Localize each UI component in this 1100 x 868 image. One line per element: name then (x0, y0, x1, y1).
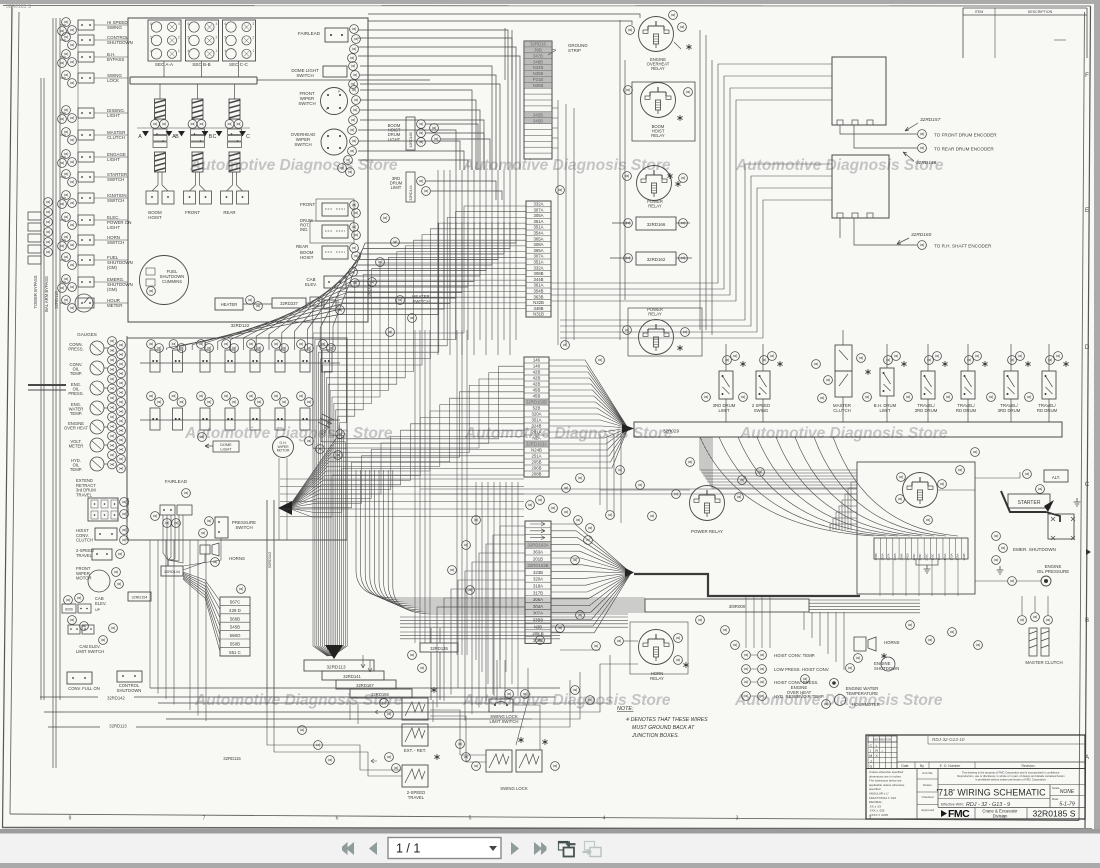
2-speed travel switch (76, 548, 124, 560)
svg-text:FAIRLEAD: FAIRLEAD (298, 31, 321, 36)
svg-text:Automotive Diagnosis Store: Automotive Diagnosis Store (464, 425, 673, 442)
toolbar page combobox (388, 838, 501, 859)
wire curve bundle to engine band (356, 470, 645, 614)
svg-text:CLUTCH: CLUTCH (833, 408, 850, 413)
note text (617, 706, 708, 739)
svg-text:MOTOR: MOTOR (277, 449, 290, 453)
svg-text:SWING LOCK: SWING LOCK (500, 786, 528, 791)
buzzer (318, 414, 344, 438)
wire duct 32RD112 (267, 500, 274, 700)
pressure switch (205, 517, 257, 538)
wire tower bypass vertical bus (41, 18, 60, 768)
svg-text:SHUTDOWN: SHUTDOWN (117, 688, 142, 693)
svg-text:308A: 308A (533, 242, 543, 247)
svg-text:Revision: Revision (1021, 764, 1034, 768)
svg-text:550B: 550B (230, 642, 240, 647)
svg-text:6: 6 (336, 816, 339, 822)
svg-text:354B: 354B (533, 289, 543, 294)
wire bottom connections (48, 668, 540, 778)
scattered wire numbers strip C (526, 474, 595, 533)
svg-text:208B: 208B (531, 472, 541, 477)
svg-text:TEMP.: TEMP. (70, 411, 82, 416)
svg-text:Approved: Approved (921, 808, 934, 812)
horns lower (199, 529, 245, 567)
svg-text:SWITCH: SWITCH (107, 198, 124, 203)
toolbar first page button (342, 842, 354, 855)
svg-text:FMC: FMC (948, 808, 970, 820)
wire left risers to bottom bus (150, 540, 206, 721)
svg-text:205B: 205B (531, 460, 541, 465)
svg-text:Division: Division (993, 814, 1008, 819)
wire thick feeder 3/8R000 (634, 574, 860, 612)
title signature cells (917, 769, 938, 813)
svg-text:LIMIT SWITCH: LIMIT SWITCH (489, 719, 518, 724)
svg-text:OIL PRESSURE: OIL PRESSURE (1037, 569, 1069, 574)
svg-text:1: 1 (253, 49, 255, 53)
svg-text:317B: 317B (533, 590, 543, 595)
boom hoist drum light cluster (388, 117, 490, 170)
svg-text:STRIP: STRIP (568, 48, 581, 53)
wire encoder callout rear drum (854, 125, 994, 166)
svg-text:351A: 351A (531, 418, 541, 423)
svg-text:SWITCH: SWITCH (107, 177, 124, 182)
svg-text:LIGHT: LIGHT (107, 225, 120, 230)
terminal strip right horizontal (874, 538, 968, 573)
svg-text:363A: 363A (533, 550, 543, 555)
svg-text:33BB: 33BB (533, 618, 544, 623)
svg-text:202C: 202C (924, 553, 928, 561)
svg-text:206B: 206B (531, 466, 541, 471)
svg-text:RD DRUM: RD DRUM (956, 408, 977, 413)
svg-text:Reproduction, use or disclosur: Reproduction, use or disclosure, in whol… (957, 774, 1065, 778)
svg-text:307A: 307A (533, 207, 543, 212)
gauge sender column (64, 336, 130, 522)
title fmc logo (941, 808, 1027, 821)
wire bundle strip A to dark trunk (313, 206, 526, 656)
wire encoder feeds (551, 64, 832, 338)
watermark row 2 (184, 425, 948, 442)
watermark row 3 (194, 692, 943, 709)
svg-text:TOWER BYPASS: TOWER BYPASS (33, 275, 38, 308)
svg-text:LOCK: LOCK (107, 78, 119, 83)
svg-text:201A: 201A (531, 430, 541, 435)
svg-text:32RD237: 32RD237 (280, 301, 298, 306)
svg-text:32RD144: 32RD144 (164, 570, 180, 574)
svg-text:MUST GROUND BACK AT: MUST GROUND BACK AT (632, 725, 695, 731)
front drum rot ind relays (296, 199, 360, 260)
svg-text:TO FRONT DRUM ENCODER: TO FRONT DRUM ENCODER (934, 133, 997, 138)
3rd drum limit cluster (390, 172, 502, 202)
wire mid horizontals (280, 434, 857, 523)
junction box 32RD154 (128, 592, 151, 601)
conv full on switch (67, 672, 100, 691)
title distribution table (868, 736, 897, 769)
svg-text:393A: 393A (880, 553, 884, 560)
svg-text:PRESS.: PRESS. (68, 391, 83, 396)
cab elev switches (62, 594, 107, 631)
svg-text:C: C (213, 134, 217, 140)
svg-text:CLUTCH: CLUTCH (107, 135, 125, 140)
svg-text:TRAVEL: TRAVEL (76, 492, 93, 497)
terminal strip B (524, 357, 549, 477)
svg-text:32R029: 32R029 (663, 429, 680, 434)
alternator box (1023, 470, 1068, 494)
svg-text:2: 2 (216, 35, 218, 39)
svg-text:6: 6 (150, 22, 152, 26)
wire engine band lines (400, 596, 920, 670)
svg-text:341B: 341B (893, 553, 897, 560)
junction box 32RD156 (350, 689, 412, 698)
front wiper switch (298, 86, 360, 125)
relay horn (560, 622, 689, 681)
wire lower-right links (524, 655, 638, 727)
svg-text:Drawn: Drawn (923, 783, 932, 787)
wire feeds starter cluster (700, 437, 1020, 596)
svg-text:SWING: SWING (107, 25, 122, 30)
svg-text:3RD DRUM: 3RD DRUM (915, 408, 938, 413)
svg-text:3: 3 (178, 22, 180, 26)
svg-text:RDJ - 32 - G13 - 9: RDJ - 32 - G13 - 9 (966, 802, 1010, 808)
svg-text:551 C: 551 C (229, 650, 241, 655)
svg-text:(GM): (GM) (107, 287, 118, 292)
svg-text:L: L (876, 744, 878, 748)
title eo header row (866, 736, 1085, 769)
svg-text:CUMMINS: CUMMINS (162, 279, 182, 284)
junction box 32RD167 (336, 680, 396, 689)
overhead wiper switch (291, 126, 359, 177)
master clutch solenoids bottom right (1018, 596, 1063, 665)
svg-text:REAR: REAR (296, 244, 308, 249)
junction box 32RD144 lower (161, 566, 183, 576)
svg-text:307A: 307A (533, 611, 543, 616)
encoder box upper (832, 57, 886, 125)
junction arrow dark trunk (325, 645, 343, 659)
svg-text:32RD160: 32RD160 (911, 232, 932, 238)
svg-text:CONV. FULL ON: CONV. FULL ON (68, 686, 100, 691)
wire staircase strip B left fan (288, 366, 524, 517)
svg-text:32R0185 S: 32R0185 S (6, 4, 32, 10)
junction arrow power bus (622, 424, 634, 433)
svg-text:L: L (326, 107, 328, 111)
svg-text:45B: 45B (533, 394, 541, 399)
junction box 32RD237 (272, 298, 306, 308)
svg-text:N3B: N3B (534, 624, 542, 629)
svg-text:52B: 52B (533, 406, 541, 411)
wire drops below 32RD boxes (350, 655, 372, 724)
svg-text:324B: 324B (531, 424, 541, 429)
encoder box lower (832, 155, 889, 218)
svg-text:HOIST CONV. PRESS.: HOIST CONV. PRESS. (774, 680, 818, 685)
svg-text:SWITCH: SWITCH (294, 142, 311, 147)
wires fairlead to 32RD144 (163, 515, 221, 570)
fairlead switch top (298, 25, 361, 63)
svg-text:337A: 337A (887, 553, 891, 560)
connector SEC A-A (148, 20, 181, 77)
svg-text:406B: 406B (874, 553, 878, 560)
engine shutdown lamp (846, 657, 900, 672)
svg-text:Scale: Scale (1052, 786, 1060, 790)
svg-text:Effective W/N:: Effective W/N: (941, 803, 964, 807)
wire relay column verticals (620, 20, 712, 340)
solenoid travel lower (371, 753, 440, 800)
wire staircase into gauges block (167, 222, 516, 350)
terminal strip A (526, 201, 551, 317)
svg-text:42B: 42B (533, 382, 541, 387)
svg-text:363B: 363B (533, 294, 543, 299)
heater box (215, 296, 262, 311)
svg-text:32RD122: 32RD122 (231, 323, 250, 328)
svg-text:TEMP.: TEMP. (70, 371, 82, 376)
svg-text:Automotive Diagnosis Store: Automotive Diagnosis Store (184, 425, 393, 442)
svg-text:POWER RELAY: POWER RELAY (691, 529, 723, 534)
svg-text:348B: 348B (533, 306, 543, 311)
title property note (938, 771, 1085, 785)
junction box 32RD166 (612, 217, 690, 230)
svg-text:LIMIT: LIMIT (391, 185, 402, 190)
svg-text:RELAY: RELAY (650, 676, 664, 681)
starter block outline (857, 462, 975, 594)
svg-text:REAR: REAR (223, 210, 235, 215)
svg-text:32RD113: 32RD113 (326, 665, 346, 670)
horns cluster right (854, 637, 900, 662)
svg-text:42B: 42B (533, 376, 541, 381)
svg-text:EXT. - RET.: EXT. - RET. (404, 748, 426, 753)
svg-text:NOTE:: NOTE: (617, 706, 634, 712)
svg-text:32RD118: 32RD118 (54, 291, 59, 309)
svg-text:OVER HEAT: OVER HEAT (64, 426, 88, 431)
svg-text:FAIRLEAD: FAIRLEAD (165, 479, 188, 484)
svg-text:SWING: SWING (754, 408, 769, 413)
fairlead lower cluster (151, 479, 192, 527)
gauge row 1 (140, 340, 340, 372)
svg-text:DESCRIPTION: DESCRIPTION (1028, 10, 1053, 14)
junction box 32RD122 outline (128, 18, 372, 328)
svg-text:LIMIT: LIMIT (719, 408, 730, 413)
svg-text:LIGHT: LIGHT (220, 447, 232, 451)
wire top bus bar (130, 77, 430, 84)
svg-text:2: 2 (253, 35, 255, 39)
terminal strip C (525, 521, 551, 643)
toolbar next page button (511, 842, 519, 855)
title sheet number (1032, 809, 1075, 819)
svg-text:148: 148 (533, 364, 541, 369)
junction box 32RD162 (610, 252, 692, 265)
svg-text:354A: 354A (533, 231, 543, 236)
svg-text:HEATER: HEATER (221, 302, 238, 307)
connector tower bypass strip (28, 198, 66, 390)
svg-text:1: 1 (178, 49, 180, 53)
svg-text:HOURMETER: HOURMETER (852, 702, 880, 707)
switch TRAVEL 3RD DRUM (904, 344, 948, 422)
svg-text:408C: 408C (918, 553, 922, 561)
svg-text:8099: 8099 (65, 608, 73, 612)
svg-text:J: J (870, 759, 872, 763)
relay power 1 (623, 166, 688, 209)
svg-text:.XXXX ± .0005: .XXXX ± .0005 (869, 813, 888, 817)
svg-text:N31B: N31B (533, 312, 544, 317)
svg-text:32RD142: 32RD142 (107, 696, 125, 701)
dome light lamp (198, 433, 239, 452)
svg-text:LIGHT: LIGHT (388, 137, 401, 142)
power relay 2 junction box outline (628, 308, 702, 356)
svg-text:32RD165: 32RD165 (409, 132, 413, 147)
ground strip connector (524, 41, 588, 159)
wire verticals beside ground strip (552, 100, 574, 345)
svg-text:SWITCH: SWITCH (296, 73, 313, 78)
svg-text:HYD. RESERVOIR TEMP.: HYD. RESERVOIR TEMP. (774, 694, 824, 699)
extend retract 3rd drum travel switch (76, 478, 128, 521)
svg-text:JUNCTION BOXES.: JUNCTION BOXES. (631, 733, 679, 739)
title drawing name (936, 788, 1085, 809)
revision table top right (963, 8, 1087, 58)
switch TRAVEL RD DRUM (944, 344, 988, 422)
svg-text:SWITCH: SWITCH (235, 525, 252, 530)
svg-text:NONE: NONE (1060, 789, 1075, 795)
svg-text:318A: 318A (533, 584, 543, 589)
svg-text:3: 3 (253, 22, 255, 26)
cab elev limit switch (68, 624, 117, 654)
svg-text:103C: 103C (931, 553, 935, 561)
svg-text:✳ DENOTES THAT THESE WIRES: ✳ DENOTES THAT THESE WIRES (625, 717, 708, 723)
svg-text:32RD156: 32RD156 (371, 692, 389, 697)
svg-text:5: 5 (188, 35, 190, 39)
svg-text:32R0185 S: 32R0185 S (1032, 809, 1075, 819)
border zone numbers (69, 816, 1006, 822)
title tolerance cell (869, 769, 917, 820)
svg-text:E: E (1085, 208, 1089, 214)
svg-text:Automotive Diagnosis Store: Automotive Diagnosis Store (189, 157, 398, 174)
svg-text:305A: 305A (533, 213, 543, 218)
svg-text:is prohibited without written: is prohibited without written permission… (975, 778, 1047, 782)
battery rectifier box (1048, 498, 1080, 540)
svg-text:D: D (1085, 345, 1090, 351)
svg-text:365A: 365A (533, 248, 543, 253)
svg-text:8: 8 (69, 816, 72, 822)
svg-text:CLUTCH: CLUTCH (76, 538, 93, 543)
hourmeter (822, 695, 880, 709)
junction box 32RD113 (304, 660, 374, 671)
svg-text:UP: UP (95, 608, 101, 612)
relay power 2 (623, 307, 690, 355)
drum controller BOOM HOIST (146, 84, 174, 220)
svg-text:344B: 344B (533, 277, 543, 282)
svg-text:SHUTDOWN: SHUTDOWN (107, 40, 133, 45)
toolbar (0, 833, 1100, 863)
svg-text:32RD113: 32RD113 (109, 724, 127, 729)
svg-text:Checked: Checked (922, 795, 934, 799)
svg-text:ELEV.: ELEV. (305, 282, 317, 287)
svg-text:32RD112: 32RD112 (267, 551, 272, 568)
svg-text:567C: 567C (230, 600, 241, 605)
svg-text:204B: 204B (962, 553, 966, 560)
svg-text:LIMIT: LIMIT (880, 408, 891, 413)
junction arrow fairlead fan (278, 501, 292, 515)
front wiper motor (76, 566, 123, 592)
svg-text:42B: 42B (533, 370, 541, 375)
wire top feed to relay column (368, 14, 640, 80)
svg-text:428 D: 428 D (229, 608, 241, 613)
svg-text:426C: 426C (912, 553, 916, 561)
terminal stack 567C (183, 572, 250, 656)
svg-text:3RD DRUM: 3RD DRUM (998, 408, 1021, 413)
relay emergency shutdown (896, 473, 947, 525)
svg-text:C: C (1085, 482, 1090, 488)
svg-text:102A: 102A (937, 553, 941, 560)
watermark row 1 (189, 157, 944, 174)
svg-text:METER: METER (69, 444, 84, 449)
emer shutdown switch (992, 532, 1056, 574)
svg-text:I: I (870, 749, 871, 753)
junction box 32RD135 (420, 628, 458, 700)
swing lock limit switch (489, 660, 519, 724)
svg-text:✓: ✓ (881, 749, 884, 753)
svg-text:Automotive Diagnosis Store: Automotive Diagnosis Store (462, 692, 671, 709)
svg-text:(GM): (GM) (107, 265, 118, 270)
svg-text:B: B (175, 134, 179, 140)
heater switch (243, 294, 430, 314)
switch TRAVEL 3RD DRUM (987, 344, 1031, 422)
relay boom hoist drum (624, 82, 695, 141)
svg-text:32RD154: 32RD154 (131, 596, 147, 600)
gauge panel box (127, 338, 347, 540)
svg-text:6: 6 (225, 22, 227, 26)
svg-text:32RD141: 32RD141 (343, 674, 361, 679)
svg-text:B: B (1085, 618, 1089, 624)
svg-text:TRAVEL: TRAVEL (408, 795, 425, 800)
svg-text:5: 5 (150, 35, 152, 39)
svg-text:DOME: DOME (220, 443, 232, 447)
svg-text:308B: 308B (533, 271, 543, 276)
svg-text:Unit WL: Unit WL (922, 771, 933, 775)
wire fan strip B to power bus (549, 360, 628, 468)
svg-text:365A: 365A (533, 236, 543, 241)
svg-text:RELAY: RELAY (651, 66, 665, 71)
svg-text:320A: 320A (533, 577, 543, 582)
svg-text:4: 4 (188, 49, 190, 53)
svg-text:105A: 105A (956, 553, 960, 560)
svg-text:F: F (1085, 73, 1089, 79)
svg-text:351A: 351A (533, 260, 543, 265)
svg-text:RDJ-32-G13-10: RDJ-32-G13-10 (932, 737, 965, 742)
svg-text:103A: 103A (949, 553, 953, 560)
svg-text:32RD144: 32RD144 (409, 185, 413, 200)
toolbar compare icon disabled (583, 842, 602, 857)
switch B.H. DRUM LIMIT (863, 344, 907, 422)
svg-text:32RD167: 32RD167 (356, 683, 374, 688)
svg-text:251A: 251A (531, 454, 541, 459)
svg-text:IND.: IND. (300, 227, 308, 232)
wire encoder callout shaft (840, 218, 992, 249)
wire staircase strip C left (437, 526, 525, 721)
svg-text:201B: 201B (533, 556, 543, 561)
svg-text:45B: 45B (533, 388, 541, 393)
svg-text:5-1-79: 5-1-79 (1059, 802, 1075, 808)
fuel shutdown cummins circle (140, 256, 189, 305)
svg-text:N24B: N24B (531, 448, 542, 453)
phase markers A B C (137, 128, 250, 140)
svg-text:N32B: N32B (533, 300, 544, 305)
title block outline (866, 735, 1085, 819)
scattered wire numbers (298, 186, 983, 765)
svg-text:HOIST: HOIST (148, 215, 162, 220)
svg-text:307A: 307A (533, 254, 543, 259)
svg-text:1 / 1: 1 / 1 (396, 842, 420, 856)
svg-text:Automotive Diagnosis Store: Automotive Diagnosis Store (739, 425, 948, 442)
svg-text:METER: METER (107, 303, 122, 308)
svg-text:3: 3 (736, 816, 739, 822)
svg-text:568O: 568O (230, 633, 241, 638)
svg-text:STARTER: STARTER (1018, 500, 1041, 506)
